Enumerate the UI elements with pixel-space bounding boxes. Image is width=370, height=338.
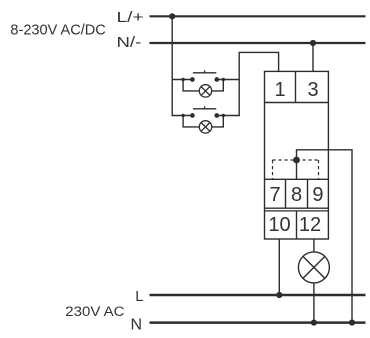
wire connector to terminal 1	[239, 52, 279, 72]
pushbutton S2 contact dot right	[214, 113, 219, 118]
wire internal contact up over to N rail	[297, 150, 353, 323]
wire lamp E3 down to N rail	[313, 283, 315, 323]
lamp E3 circle	[298, 252, 329, 283]
wire N mains rail	[150, 321, 366, 324]
svg-text:7: 7	[269, 184, 280, 206]
wire internal contact to terminal 8	[296, 160, 298, 179]
svg-text:12: 12	[299, 214, 321, 236]
device U1 top terminal row bottom edge	[265, 102, 329, 104]
wire L/+ supply rail	[150, 15, 366, 17]
wire L mains rail	[150, 294, 366, 297]
node S1 lamp tap left	[181, 78, 184, 81]
wire S1 lamp branch right	[212, 80, 224, 91]
wire terminal 12 down to lamp E3	[313, 239, 315, 252]
wire S2 lamp branch left	[183, 116, 199, 127]
node junction lamp E3 on N rail	[311, 320, 317, 326]
pushbutton S2 contact wire right	[217, 115, 240, 117]
lamp E1 circle	[199, 85, 211, 97]
pushbutton S2 actuator stem	[204, 106, 206, 109]
svg-text:230V AC: 230V AC	[65, 304, 124, 320]
terminal divider 7|8	[285, 179, 287, 208]
pushbutton S1 contact wire left	[172, 79, 193, 81]
svg-text:L/+: L/+	[117, 9, 144, 26]
device U1 row 7-8-9 top edge	[265, 178, 329, 180]
svg-text:10: 10	[268, 214, 290, 236]
pushbutton S1 contact dot right	[214, 77, 219, 82]
svg-text:9: 9	[312, 184, 323, 206]
pushbutton S1 actuator bar	[193, 72, 216, 74]
wire stub N/- to terminal 3	[312, 43, 314, 72]
svg-text:8-230V AC/DC: 8-230V AC/DC	[10, 22, 106, 39]
device U1 row 10-12 top edge	[265, 210, 329, 212]
wire N/- supply rail	[150, 42, 366, 44]
pushbutton S2 contact wire left	[172, 115, 193, 117]
node junction right wire on N rail	[349, 320, 355, 326]
node S2 lamp tap right	[222, 114, 225, 117]
pushbutton S1 contact dot left	[190, 77, 195, 82]
internal contact dashed box top	[273, 159, 319, 161]
wire left rail from L/+ down to pushbuttons	[171, 16, 173, 116]
device U1 row 7-8-9 bottom edge	[265, 207, 329, 209]
svg-text:N: N	[131, 317, 143, 334]
wire S1 lamp branch left	[183, 80, 199, 91]
device U1 body outline	[265, 71, 329, 239]
lamp E3 cross	[303, 256, 325, 278]
terminal divider 1|3	[295, 71, 297, 102]
svg-text:3: 3	[307, 79, 318, 101]
lamp E1 cross	[201, 87, 210, 96]
svg-text:N/-: N/-	[117, 34, 142, 51]
pushbutton S1 contact wire right	[217, 79, 240, 81]
wire right rail of pushbutton group	[238, 52, 240, 116]
node junction on L/+	[169, 13, 175, 19]
node S2 lamp tap left	[181, 114, 184, 117]
svg-text:1: 1	[274, 79, 285, 101]
node internal contact common	[293, 157, 300, 164]
wire S2 lamp branch right	[212, 116, 224, 127]
internal contact dashed box left	[272, 160, 274, 179]
lamp E2 circle	[199, 121, 211, 133]
lamp E2 cross	[201, 123, 210, 132]
pushbutton S2 actuator bar	[193, 108, 216, 110]
terminal divider 10|12	[296, 211, 298, 240]
svg-text:L: L	[135, 288, 143, 305]
svg-text:8: 8	[291, 184, 302, 206]
node S1 lamp tap right	[222, 78, 225, 81]
pushbutton S1 actuator stem	[204, 70, 206, 73]
terminal divider 8|9	[307, 179, 309, 208]
node junction terminal 10 on L rail	[276, 292, 282, 298]
wire terminal 10 down to L rail	[278, 239, 280, 295]
internal contact dashed box right	[318, 160, 320, 179]
node junction on N/-	[310, 40, 316, 46]
pushbutton S2 contact dot left	[190, 113, 195, 118]
